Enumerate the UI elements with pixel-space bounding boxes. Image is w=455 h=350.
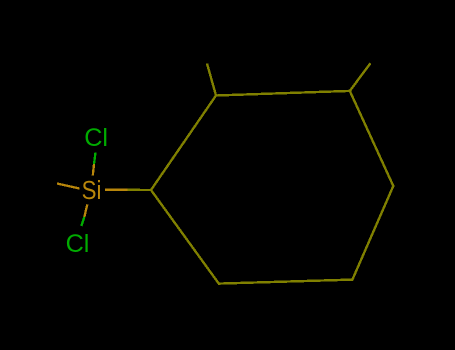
wire: Si-Cl top bond (gold half) (93, 164, 94, 176)
wire: methyl stub at top-right ring vertex (350, 63, 371, 91)
wire: Si-Cl bottom bond (green half) (81, 217, 84, 226)
svg-text:Cl: Cl (66, 230, 90, 258)
ring: cyclohexane hexagon (151, 91, 393, 284)
wire: methyl stub at top-left ring vertex (207, 64, 216, 96)
svg-text:Cl: Cl (84, 124, 108, 152)
svg-text:Si: Si (82, 177, 102, 205)
wire: Si-C ring bond (olive half) (127, 189, 151, 192)
wire: Si-Cl top bond (green half) (94, 153, 96, 165)
wire: Si-C ring bond (gold half) (105, 189, 128, 191)
wire: Si-CH3 methyl bond (57, 184, 80, 189)
wire: Si-Cl bottom bond (gold half) (84, 205, 87, 218)
